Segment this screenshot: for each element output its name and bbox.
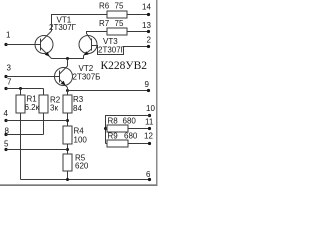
svg-text:9: 9: [145, 80, 150, 89]
transistor VT1: [35, 31, 53, 59]
svg-text:680: 680: [123, 117, 137, 126]
pin 2: [147, 36, 152, 49]
wire R9 to pin 12: [128, 143, 150, 145]
pin 9: [145, 80, 151, 92]
wire bottom rail: [21, 179, 150, 181]
pin 5: [4, 140, 68, 152]
resistor R5: [63, 154, 89, 172]
wire common emitters: [52, 56, 84, 59]
wire R5 to rail: [67, 171, 69, 180]
node R1 top junction: [19, 87, 22, 90]
svg-text:84: 84: [73, 104, 82, 113]
svg-text:3к: 3к: [50, 104, 58, 113]
pin 6: [146, 170, 151, 181]
svg-text:680: 680: [124, 132, 138, 141]
svg-text:620: 620: [75, 162, 89, 171]
svg-text:2Т307Б: 2Т307Б: [73, 73, 101, 82]
resistor R2: [39, 89, 61, 114]
wire VT1 collector to R6: [52, 15, 108, 32]
svg-text:4: 4: [4, 109, 9, 118]
pin 1: [4, 31, 40, 47]
svg-text:3: 3: [7, 64, 12, 73]
pin 7: [4, 78, 43, 91]
transistor VT2: [55, 66, 73, 88]
resistor R4: [63, 126, 87, 145]
wire R4 to R5: [67, 144, 69, 154]
wire VT3 base to pin 2: [92, 46, 149, 55]
svg-text:14: 14: [142, 3, 151, 12]
wire VT3 collector to R7: [87, 32, 108, 41]
svg-text:R6: R6: [99, 2, 110, 11]
VT2 label: [73, 64, 101, 82]
node R8 left junction: [104, 127, 107, 130]
node R4-R5 junction: [66, 148, 69, 151]
svg-text:2Т307Г: 2Т307Г: [49, 23, 77, 32]
svg-text:R9: R9: [108, 132, 119, 141]
pin 12: [144, 132, 153, 146]
border frame (decorative): [0, 0, 158, 186]
svg-text:R3: R3: [73, 95, 84, 104]
svg-text:10: 10: [146, 104, 155, 113]
svg-text:2Т307Г: 2Т307Г: [98, 46, 126, 55]
resistor R6: [99, 2, 127, 19]
svg-text:6.2к: 6.2к: [25, 103, 40, 112]
pin 10: [106, 104, 156, 144]
wire R8 to pin 11: [128, 128, 150, 130]
svg-text:7: 7: [7, 78, 12, 87]
pin 14: [142, 3, 151, 17]
VT1 label: [49, 16, 77, 33]
transistor VT3: [79, 36, 97, 56]
svg-text:75: 75: [115, 19, 124, 28]
node R3-R4 junction: [66, 119, 69, 122]
wire VT2 emitter down to R3: [67, 91, 69, 96]
svg-text:75: 75: [115, 2, 124, 11]
resistor R7: [99, 19, 127, 35]
svg-text:100: 100: [74, 136, 88, 145]
svg-text:11: 11: [145, 118, 154, 127]
pin 11: [145, 118, 154, 131]
svg-text:R8: R8: [108, 117, 119, 126]
resistor R8: [106, 117, 137, 133]
pin 4: [4, 109, 68, 122]
resistor R3: [63, 95, 84, 113]
svg-text:5: 5: [4, 140, 9, 149]
wire R1 bottom to rail: [20, 113, 22, 180]
svg-text:6: 6: [146, 170, 151, 179]
svg-text:2: 2: [147, 36, 152, 45]
VT3 label: [98, 37, 126, 55]
node R5 bottom junction: [66, 178, 69, 181]
wire R7 to pin 13: [127, 31, 149, 33]
svg-text:1: 1: [6, 31, 11, 40]
node VT2 collector junction: [66, 57, 69, 66]
svg-text:R7: R7: [99, 19, 110, 28]
pin 13: [142, 21, 151, 33]
resistor R1: [16, 89, 40, 114]
svg-text:R4: R4: [74, 127, 85, 136]
pin 3: [4, 64, 59, 79]
svg-text:К228УВ2: К228УВ2: [101, 60, 148, 72]
node VT2 emitter junction: [66, 89, 69, 92]
wire R6 to pin 14: [127, 14, 149, 16]
wire R3 to R4: [67, 113, 69, 126]
svg-text:13: 13: [142, 21, 151, 30]
pin 8: [4, 127, 43, 137]
wire VT2 emitter to pin 9: [68, 88, 149, 91]
wire R2 bottom to pin 8 wire: [43, 113, 45, 135]
svg-text:12: 12: [144, 132, 153, 141]
resistor R9: [106, 132, 138, 148]
